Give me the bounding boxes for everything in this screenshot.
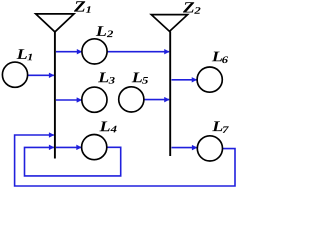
wire: outer feedback loop from L7 to bus 1 (15, 135, 235, 186)
load L3 circle (82, 87, 107, 112)
label L7 (212, 121, 222, 131)
label Z1 (74, 1, 85, 11)
bus 2 (169, 31, 171, 156)
label L4 (99, 122, 109, 132)
antenna Z1 triangle (36, 14, 74, 32)
load L2 circle (82, 39, 107, 64)
wire: bus 2 to L6 (172, 79, 197, 81)
wire: bus 1 to L3 (56, 99, 82, 101)
label L6 (212, 52, 222, 62)
label L5 (132, 73, 142, 83)
label L2 (96, 26, 106, 36)
wire: bus 2 to L7 (172, 147, 197, 149)
load L5 circle (119, 87, 144, 112)
wire: L5 to bus 2 (144, 99, 169, 101)
load L1 circle (2, 62, 27, 87)
load L6 circle (197, 67, 222, 92)
wire: bus 1 to L4 (56, 146, 81, 148)
bus 1 (54, 32, 56, 159)
antenna Z2 triangle (151, 15, 187, 32)
label L3 (98, 73, 108, 83)
wire: bus 1 to L2 (56, 51, 82, 53)
wire: L2 to bus 2 (107, 51, 169, 53)
wire: L1 to bus 1 (28, 74, 54, 76)
load L7 circle (197, 136, 222, 161)
load L4 circle (82, 135, 107, 160)
label Z2 (183, 2, 194, 12)
wire: inner feedback loop from L4 to bus 1 (25, 147, 121, 176)
label L1 (17, 49, 27, 59)
